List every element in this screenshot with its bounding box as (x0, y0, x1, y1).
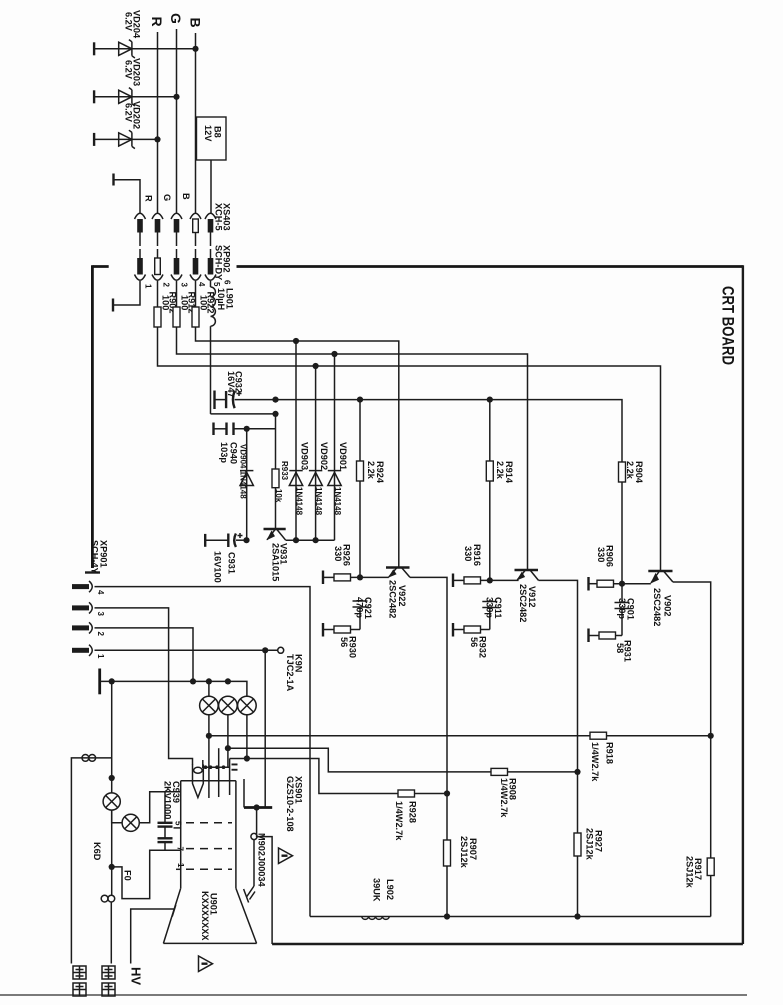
spark gap 3 (238, 696, 257, 758)
wire (114, 180, 141, 213)
resistor R904 2.2k (619, 461, 645, 602)
wire G signal (177, 327, 528, 570)
wire (176, 281, 178, 307)
junction (109, 678, 115, 684)
resistor R908 1/4W2.7k (228, 748, 578, 818)
CRT electron gun (193, 765, 204, 798)
wire (210, 160, 212, 213)
resistor R918 1/4W2.7k (209, 732, 711, 782)
junction (190, 678, 196, 684)
connector XS403 pin 2 (152, 213, 163, 258)
svg-text:2: 2 (96, 632, 105, 637)
svg-text:1N4148: 1N4148 (333, 487, 342, 516)
board border bottom (272, 943, 743, 945)
diode VD902 1N4148 (309, 366, 329, 540)
svg-text:G: G (162, 194, 172, 201)
svg-text:103p: 103p (219, 442, 229, 463)
capacitor C921 470p (353, 597, 374, 630)
CRT socket pins (202, 748, 230, 797)
terminal K9N TJC2-1A (278, 647, 304, 691)
connector XS403 pin 4 (190, 213, 201, 258)
spark gap 1 (200, 681, 219, 798)
wire focus branch (111, 810, 113, 895)
connector XS403 pin 5 (205, 213, 216, 258)
svg-text:330p: 330p (617, 598, 627, 619)
svg-text:12V: 12V (203, 125, 213, 142)
svg-text:2SC2482: 2SC2482 (388, 580, 398, 618)
junction (487, 577, 493, 583)
resistor R924 2.2k (357, 400, 386, 578)
junction (293, 338, 299, 344)
resistor R912 100 (173, 292, 197, 328)
wire L901 down (210, 326, 212, 414)
ground (322, 623, 324, 637)
ground (452, 574, 454, 588)
svg-text:56: 56 (339, 637, 349, 647)
junction (708, 733, 714, 739)
ferrite beads accel (71, 755, 111, 964)
page scan edge (0, 994, 747, 996)
ground (93, 133, 95, 146)
svg-text:1N4148: 1N4148 (314, 487, 323, 516)
svg-text:R: R (149, 17, 165, 27)
resistor R926 330 (323, 544, 389, 581)
resistor R927 2SJ12k (574, 828, 604, 861)
connector XP902 pin 1 (135, 258, 146, 280)
svg-text:SCH-DY: SCH-DY (214, 245, 224, 280)
svg-text:TJC2-1A: TJC2-1A (285, 654, 295, 692)
junction (331, 351, 337, 357)
wire (195, 281, 197, 307)
resistor R917 2SJ12k (685, 856, 715, 889)
svg-text:KXXXXXXX: KXXXXXXX (200, 891, 210, 941)
svg-text:100: 100 (199, 295, 209, 310)
junction (206, 678, 212, 684)
junction (357, 397, 363, 403)
connector XS403 pin 1 (135, 213, 146, 258)
ground (93, 90, 95, 103)
svg-text:2SC2482: 2SC2482 (518, 584, 528, 622)
heater lamp 1 (103, 793, 120, 810)
svg-text:2SJ12k: 2SJ12k (459, 836, 469, 869)
wire HV (131, 909, 174, 964)
ground bar under border (85, 571, 100, 573)
svg-text:6.2V: 6.2V (123, 103, 133, 123)
svg-text:2: 2 (162, 283, 171, 288)
junction (225, 745, 231, 751)
svg-text:2.2k: 2.2k (495, 461, 505, 480)
wire V931 collector (286, 539, 335, 541)
wire collector V912 (539, 580, 578, 916)
connector XP901 pin 1 (72, 645, 92, 656)
transistor V902 2SC2482 (648, 571, 673, 626)
warning triangle 2 (199, 956, 213, 972)
svg-text:2SA1015: 2SA1015 (271, 543, 281, 581)
battery B8 12V (197, 117, 227, 160)
svg-text:VD902: VD902 (319, 442, 329, 470)
svg-text:330: 330 (463, 546, 473, 561)
ground (587, 629, 589, 643)
label accel CJK (73, 966, 86, 996)
svg-text:2.2k: 2.2k (625, 461, 635, 480)
svg-text:7: 7 (176, 847, 185, 852)
junction (574, 913, 580, 919)
svg-text:C931: C931 (227, 552, 237, 574)
connector XP901 pin 4 (72, 581, 92, 592)
svg-text:G: G (168, 13, 184, 24)
junction (225, 678, 231, 684)
capacitor C932 16V47 (215, 371, 244, 409)
svg-text:VD901: VD901 (338, 442, 348, 470)
svg-text:2SJ12k: 2SJ12k (585, 828, 595, 861)
connector XP902 pin 4 (190, 258, 201, 280)
svg-text:4: 4 (96, 590, 105, 595)
board edge wire left (92, 265, 108, 268)
svg-text:16V47: 16V47 (226, 371, 236, 398)
junction on G (173, 94, 179, 100)
ground (93, 42, 95, 55)
svg-text:10k: 10k (274, 489, 283, 503)
junction on B (192, 46, 198, 52)
svg-text:5: 5 (212, 282, 221, 287)
diode VD202 (119, 101, 142, 149)
transistor V912 2SC2482 (515, 570, 539, 622)
junction (313, 537, 319, 543)
junction (272, 411, 278, 417)
svg-text:3: 3 (180, 283, 189, 288)
resistor R916 330 (453, 544, 519, 584)
svg-text:2KV1000: 2KV1000 (163, 781, 173, 819)
ferrite beads focus (101, 895, 115, 963)
svg-text:330p: 330p (485, 597, 495, 618)
svg-text:SCH-4Y: SCH-4Y (90, 540, 100, 574)
svg-text:M902J00034: M902J00034 (257, 833, 267, 888)
junction (206, 733, 212, 739)
wire collector V902 (673, 582, 711, 917)
svg-text:B: B (181, 193, 191, 200)
wire pin1 to ground (114, 281, 140, 305)
junction (444, 913, 450, 919)
svg-text:HV: HV (129, 967, 144, 985)
svg-text:1: 1 (96, 654, 105, 659)
connector XP902 pin 5 (205, 258, 216, 280)
svg-text:58: 58 (615, 643, 625, 653)
ground (452, 623, 454, 637)
svg-text:2SJ12k: 2SJ12k (685, 856, 695, 889)
resistor R931 58 (589, 632, 633, 662)
svg-text:F0: F0 (123, 870, 133, 881)
svg-text:16V100: 16V100 (213, 551, 223, 583)
svg-text:C940: C940 (229, 442, 239, 464)
svg-text:1: 1 (176, 863, 185, 868)
svg-text:1/4W2.7k: 1/4W2.7k (394, 801, 404, 841)
node R (149, 17, 165, 214)
junction (487, 397, 493, 403)
svg-text:V922: V922 (397, 585, 407, 606)
pin label 11 (232, 764, 238, 771)
junction V931 emitter (243, 537, 249, 543)
resistor R902 100 (154, 292, 178, 328)
svg-text:B8: B8 (213, 126, 223, 138)
wire collector V922 (410, 577, 447, 916)
capacitor C939 2KV1000 (158, 781, 182, 850)
capacitor C911 330p (482, 597, 503, 630)
inductor L901 10uH (211, 281, 235, 326)
svg-text:5: 5 (174, 821, 183, 826)
svg-text:6.2V: 6.2V (123, 12, 133, 32)
diode VD901 1N4148 (328, 354, 348, 540)
junction (109, 864, 115, 870)
aquadag M902J00034 (247, 833, 267, 900)
label focus CJK (102, 966, 115, 996)
capacitor C901 330p (615, 598, 636, 636)
ground (587, 577, 589, 591)
wire F0 electrode (112, 850, 181, 898)
spark gap 2 (219, 696, 238, 767)
svg-text:B: B (188, 18, 204, 28)
svg-text:R918: R918 (605, 742, 615, 764)
resistor R906 330 (589, 545, 651, 587)
svg-text:470p: 470p (355, 597, 365, 618)
wire L901 tap (211, 413, 276, 415)
svg-text:1/4W2.7k: 1/4W2.7k (590, 742, 600, 782)
svg-text:1/4W2.7k: 1/4W2.7k (499, 778, 509, 818)
wire R signal (158, 327, 661, 571)
CRT funnel flare (163, 888, 256, 943)
diode VD903 1N4148 (289, 341, 309, 540)
connector XS403 pin 3 (171, 213, 182, 258)
junction (293, 537, 299, 543)
board border left (91, 265, 94, 568)
wire (94, 138, 157, 140)
junction (109, 775, 115, 781)
svg-text:100: 100 (161, 295, 171, 310)
capacitor C931 16V100 (205, 533, 246, 583)
ground (112, 174, 114, 186)
diode VD904 1N4148 (239, 429, 254, 540)
svg-text:R: R (144, 195, 154, 202)
inductor L902 39UH (362, 878, 395, 919)
svg-text:56: 56 (469, 637, 479, 647)
svg-text:VD903: VD903 (300, 442, 310, 470)
wire pin2 (95, 628, 194, 682)
svg-text:6: 6 (223, 280, 232, 285)
junction (619, 581, 625, 587)
svg-text:VD904 1N4148: VD904 1N4148 (239, 444, 248, 499)
junction on R (154, 136, 160, 142)
CRT grid stub 5 (174, 821, 183, 828)
capacitor C940 103p (214, 423, 276, 464)
ground (98, 669, 101, 695)
wire 12V rail (235, 400, 622, 462)
bottom bus wire (310, 916, 711, 918)
ground bus wire (100, 681, 247, 696)
svg-text:GZS10-2-108: GZS10-2-108 (285, 776, 295, 832)
svg-text:330: 330 (333, 546, 343, 561)
junction (357, 574, 363, 580)
connector XP902 pin 3 (171, 258, 182, 280)
junction (574, 769, 580, 775)
svg-text:1: 1 (144, 284, 153, 289)
svg-text:100: 100 (180, 295, 190, 310)
heater lamp 2 (112, 792, 181, 832)
warning triangle 1 (279, 848, 293, 864)
junction (444, 790, 450, 796)
CRT internal dashes (186, 823, 232, 870)
svg-text:CRT BOARD: CRT BOARD (719, 286, 737, 365)
svg-text:39UK: 39UK (372, 878, 382, 902)
diode VD204 (119, 10, 142, 58)
ground (112, 299, 114, 312)
resistor R932 56 (453, 626, 490, 658)
CRT grid stub 1 (176, 863, 185, 869)
svg-text:330: 330 (596, 547, 606, 562)
wire pin1 (95, 649, 278, 651)
resistor R907 2SJ12k (444, 836, 479, 869)
svg-text:2SC2482: 2SC2482 (652, 588, 662, 626)
resistor R914 2.2k (486, 400, 514, 581)
svg-text:R933: R933 (280, 461, 289, 481)
junction (262, 647, 268, 653)
diode VD203 (119, 58, 142, 106)
resistor R933 10k (272, 414, 289, 529)
CRT neck (181, 781, 236, 889)
connector XP901 pin 3 (72, 602, 92, 613)
resistor R930 56 (323, 626, 360, 658)
node B (188, 18, 204, 214)
node G (168, 13, 184, 213)
junction (254, 804, 260, 810)
svg-text:3: 3 (96, 612, 105, 617)
wire (94, 48, 195, 50)
svg-text:4: 4 (197, 282, 206, 287)
resistor R922 100 (192, 292, 216, 328)
junction (272, 397, 278, 403)
transistor V931 2SA1015 (264, 529, 289, 581)
junction (313, 363, 319, 369)
socket XS901 GZS10-2-108 (244, 650, 304, 944)
svg-text:1N4148: 1N4148 (295, 487, 304, 516)
svg-text:6.2V: 6.2V (123, 60, 133, 80)
wire pin4 (95, 587, 311, 917)
resistor R928 1/4W2.7k (230, 759, 447, 842)
transistor V922 2SC2482 (386, 568, 410, 619)
svg-text:R928: R928 (408, 801, 418, 823)
wire pin3 (95, 608, 193, 765)
junction (244, 755, 250, 761)
svg-text:2.2k: 2.2k (366, 461, 376, 480)
board edge wire 12V (237, 265, 743, 268)
wire (157, 281, 159, 307)
wire heater feed (111, 681, 113, 793)
ground (322, 571, 324, 585)
label XS403 XCH-5 (214, 203, 232, 231)
label XP902 SCH-DY (214, 245, 232, 280)
wire (94, 96, 176, 98)
svg-text:V902: V902 (663, 595, 673, 616)
connector XP901 pin 2 (72, 622, 92, 633)
svg-text:K6D: K6D (92, 842, 102, 861)
svg-text:L902: L902 (385, 879, 395, 900)
board border right (742, 265, 744, 944)
svg-text:XCH-5: XCH-5 (214, 203, 224, 231)
junction VD904 top (244, 426, 250, 432)
wire B signal (196, 327, 399, 567)
svg-text:10µH: 10µH (216, 288, 226, 311)
label XP901 SCH-4Y (90, 540, 109, 574)
connector XP902 pin 2 (152, 258, 163, 280)
label U901 KXXXXXXX (200, 891, 219, 941)
